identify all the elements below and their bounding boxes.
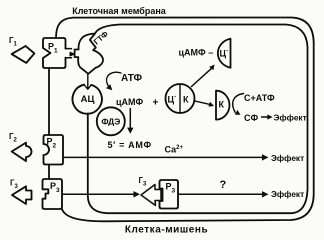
svg-text:Клеточная мембрана: Клеточная мембрана — [72, 6, 167, 16]
svg-text:К: К — [219, 100, 225, 110]
arrow ATP to cAMP (curved, around AC) — [107, 72, 121, 86]
svg-text:цАМФ –: цАМФ – — [179, 48, 214, 58]
receptor P2 box — [44, 135, 64, 165]
hormone G1 (diamond) — [12, 46, 35, 63]
arrow internal P3 to Effect — [178, 193, 263, 195]
arrow cAMP down to 5'-AMP — [129, 109, 131, 129]
G-protein blob with GTP slot and socket — [75, 34, 103, 74]
svg-text:АЦ: АЦ — [81, 94, 95, 105]
svg-text:АТФ: АТФ — [121, 73, 142, 84]
arrow P3 to internal G3 — [62, 193, 135, 195]
receptor P1 tab lines — [66, 49, 72, 58]
enzyme AC (adenylate cyclase) circle — [73, 85, 102, 114]
wire membrane segment P2-P3 — [48, 165, 50, 180]
cell membrane inner line (joins G-protein top and AC stem) — [88, 25, 308, 214]
svg-text:К: К — [183, 95, 189, 105]
svg-text:цАМФ: цАМФ — [116, 97, 144, 107]
subunit C half-disc (flat right) — [218, 39, 231, 68]
subunit K half-disc (flat left) — [216, 91, 230, 120]
svg-text:Эффект: Эффект — [271, 153, 304, 163]
wire funnel stem blob to AC — [84, 74, 91, 89]
protein kinase circle C|K — [166, 84, 195, 113]
svg-text:?: ? — [220, 179, 227, 191]
hormone G3 (arrow) — [12, 186, 32, 204]
arrow K catalysis curve (C+ATP to SF) — [233, 94, 244, 113]
receptor P1 box — [43, 38, 66, 68]
svg-text:+: + — [153, 97, 159, 108]
svg-text:Эффект: Эффект — [271, 189, 304, 199]
arrow SF to Effect — [262, 116, 269, 118]
receptor P3 internal box — [160, 180, 179, 209]
arrow CK circle to K half — [194, 101, 209, 104]
svg-text:СФ: СФ — [244, 113, 258, 123]
svg-text:5′ = АМФ: 5′ = АМФ — [108, 140, 152, 150]
svg-text:С+АТФ: С+АТФ — [244, 93, 275, 103]
cell membrane outer line — [56, 18, 314, 222]
arrow P2 row to Effect (Ca) — [63, 156, 263, 158]
receptor P1 tab tip (solid nub) — [70, 52, 74, 56]
hormone G3 internal (arrow shape) — [141, 185, 161, 206]
receptor P3 box — [43, 179, 63, 209]
svg-text:Эффект: Эффект — [274, 113, 307, 123]
svg-text:ФДЭ: ФДЭ — [101, 116, 120, 126]
enzyme PDE circle — [97, 107, 125, 135]
svg-text:Клетка-мишень: Клетка-мишень — [125, 225, 208, 236]
wire membrane segment P1-P2 — [48, 68, 50, 135]
arrow CK circle to C half — [192, 69, 212, 87]
hormone G2 (triangle with knob) — [12, 143, 32, 162]
